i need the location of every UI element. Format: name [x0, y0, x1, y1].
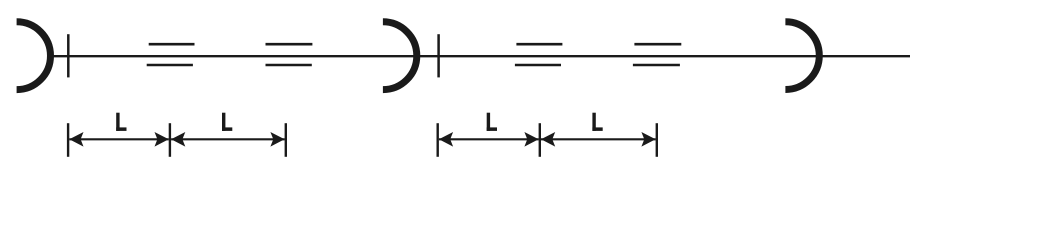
label L dim4 — [592, 113, 595, 131]
arrowhead A8 right of D4 — [641, 132, 655, 147]
label L dim2 — [222, 113, 225, 131]
bell-mouth arc B3 — [785, 22, 819, 90]
label L dim3 — [487, 113, 490, 131]
arrowhead A2 right of D1 — [155, 132, 169, 147]
dimension extension line E5 — [539, 123, 541, 157]
arrowhead A5 left of D3 — [439, 132, 453, 147]
splice S3 — [515, 44, 563, 65]
dimension extension line E1 — [67, 123, 69, 157]
joint tick T2 — [437, 34, 440, 77]
arrowhead A4 right of D2 — [270, 132, 284, 147]
dimension extension line E3 — [285, 123, 287, 157]
dimension extension line E6 — [656, 123, 658, 157]
bell-mouth arc B1 — [17, 22, 51, 90]
splice S4 — [633, 44, 681, 65]
arrowhead A6 right of D3 — [524, 132, 538, 147]
dimension line D4 — [541, 138, 656, 140]
arrowhead A7 left of D4 — [541, 132, 555, 147]
arrowhead A3 left of D2 — [171, 132, 185, 147]
wire: main duct line — [51, 55, 911, 57]
bell-mouth arc B2 — [383, 22, 417, 90]
dimension extension line E4 — [437, 123, 439, 157]
arrowhead A1 left of D1 — [69, 132, 83, 147]
joint tick T1 — [67, 34, 70, 77]
dimension line D3 — [439, 138, 539, 140]
dimension extension line E2 — [169, 123, 171, 157]
dimension line D1 — [69, 138, 168, 140]
dimension line D2 — [171, 138, 285, 140]
splice S1 — [147, 44, 195, 65]
label L dim1 — [116, 113, 119, 131]
splice S2 — [266, 44, 313, 65]
